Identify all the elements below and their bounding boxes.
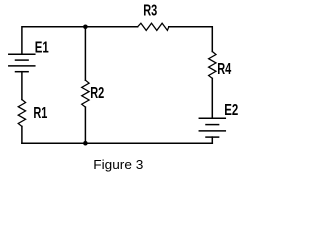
svg-text:Figure 3: Figure 3 [93,158,143,172]
node: top junction [83,25,88,30]
wire: R4 to E2 [211,78,213,118]
wire: middle branch upper (junction to R2) [84,27,86,80]
svg-text:R3: R3 [143,2,157,19]
svg-text:R1: R1 [33,105,47,122]
resistor R3 [138,23,169,30]
svg-text:E1: E1 [35,39,49,56]
wire: E2 negative terminal to bottom-right corner [211,137,213,143]
svg-text:R2: R2 [90,85,104,102]
svg-text:R4: R4 [217,61,231,78]
wire: middle branch lower (R2 to junction) [84,107,86,143]
wire: bottom bus [22,142,212,144]
svg-text:E2: E2 [224,102,238,119]
battery E2 [199,118,225,137]
resistor R4 [209,52,216,79]
wire: bottom-left corner up to R1 [21,126,23,143]
resistor R1 [18,100,25,127]
resistor R2 [82,80,89,107]
wire: R1 to E1 [21,72,23,100]
node: bottom junction [83,141,88,146]
wire: E1 positive terminal up to top-left corner across to R3 [22,27,138,55]
wire: R3 to top-right corner down to R4 [169,27,213,52]
battery E1 [9,54,35,71]
